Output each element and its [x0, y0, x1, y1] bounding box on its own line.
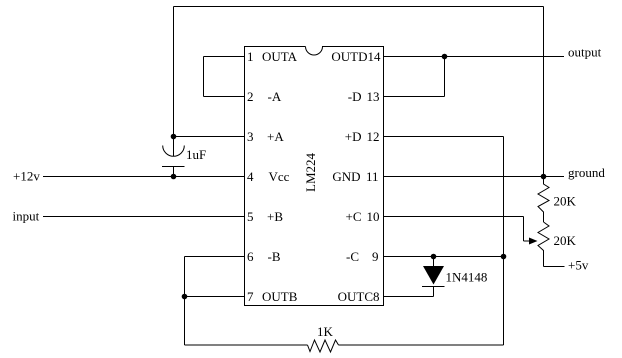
pin 8 name and number OUTC8 — [338, 289, 380, 304]
svg-text:+D: +D — [345, 129, 362, 144]
svg-text:3: 3 — [247, 129, 254, 144]
svg-text:+5v: +5v — [568, 257, 589, 272]
svg-text:GND: GND — [332, 169, 360, 184]
pin 1 name OUTA — [262, 49, 298, 64]
svg-text:2: 2 — [247, 89, 254, 104]
wire: pin 10 +C to wiper — [384, 216, 524, 218]
wire: pin 2 -A to feedback loop — [204, 96, 245, 98]
op-amp U1 LM224 body outline with notch — [245, 47, 384, 306]
pin 6 name -B — [268, 249, 281, 264]
pin 3 number — [247, 129, 254, 144]
pin 5 name +B — [267, 209, 283, 224]
node: junction pin7 / feedback vertical — [182, 294, 188, 300]
svg-text:20K: 20K — [554, 194, 577, 209]
label: 1N4148 value — [446, 269, 488, 284]
svg-text:OUTB: OUTB — [262, 289, 298, 304]
capacitor C1 bottom lead — [173, 167, 175, 177]
pin 9 number — [372, 249, 379, 264]
label: +12v — [13, 169, 40, 184]
potentiometer wiper arrowhead — [529, 238, 538, 245]
label: 20K upper value — [554, 194, 577, 209]
node: junction ground / right vertical / divider — [541, 174, 547, 180]
svg-text:5: 5 — [247, 209, 254, 224]
wire: wiper vertical — [523, 217, 525, 242]
diode D1 anode lead — [433, 257, 435, 267]
pin 9 name -C — [346, 249, 359, 264]
wire: pin 9 -C — [384, 256, 504, 258]
pin 12 number — [367, 129, 380, 144]
wire: pin 12 +D — [384, 136, 504, 138]
pin 11 name GND — [332, 169, 360, 184]
svg-text:ground: ground — [568, 165, 605, 180]
svg-text:-C: -C — [346, 249, 359, 264]
svg-text:7: 7 — [247, 289, 254, 304]
svg-text:12: 12 — [367, 129, 380, 144]
wire: wiper horizontal — [524, 240, 530, 242]
resistor R1 20K upper — [538, 177, 549, 223]
svg-text:1: 1 — [247, 49, 254, 64]
svg-text:1N4148: 1N4148 — [446, 269, 488, 284]
svg-text:input: input — [13, 209, 40, 224]
pin 10 number — [367, 209, 380, 224]
wire: pin 3 +A — [174, 136, 245, 138]
wire: right mid vertical pin12 to bottom rail — [503, 137, 505, 346]
pin 1 number — [247, 49, 254, 64]
node: junction pin9 / diode anode — [431, 254, 437, 260]
svg-text:+B: +B — [267, 209, 283, 224]
svg-text:-D: -D — [348, 89, 362, 104]
svg-text:1uF: 1uF — [186, 147, 206, 162]
wire: left vertical from top rail down to pin 3 — [173, 7, 175, 137]
pin 4 number — [247, 169, 254, 184]
svg-text:OUTC8: OUTC8 — [338, 289, 380, 304]
pin 7 name OUTB — [262, 289, 298, 304]
svg-text:6: 6 — [247, 249, 254, 264]
pin 5 number — [247, 209, 254, 224]
svg-text:13: 13 — [367, 89, 380, 104]
node: junction capacitor / +12v rail — [171, 174, 177, 180]
node: junction pin9 / right mid vertical — [501, 254, 507, 260]
svg-text:OUTD14: OUTD14 — [331, 49, 381, 64]
pin 2 name -A — [268, 89, 282, 104]
wire: +5v stub — [544, 266, 565, 268]
label: 1uF value — [186, 147, 206, 162]
wire: pin 8 OUTC to diode — [384, 296, 434, 298]
pin 7 number — [247, 289, 254, 304]
svg-text:LM224: LM224 — [303, 153, 318, 193]
wire: pin 6 -B — [185, 256, 245, 258]
wire: pin 13 -D — [384, 96, 445, 98]
wire: input to pin 5 +B — [43, 216, 245, 218]
svg-text:4: 4 — [247, 169, 254, 184]
svg-text:Vcc: Vcc — [269, 169, 290, 184]
svg-text:11: 11 — [366, 169, 379, 184]
svg-text:1K: 1K — [317, 324, 334, 339]
wire: left feedback vertical pin6 to bottom rail — [184, 257, 186, 346]
svg-text:OUTA: OUTA — [262, 49, 298, 64]
pin 12 name +D — [345, 129, 362, 144]
label: input — [13, 209, 40, 224]
svg-text:10: 10 — [367, 209, 380, 224]
resistor R2 20K lower — [538, 222, 549, 267]
pin 11 number — [366, 169, 379, 184]
svg-text:9: 9 — [372, 249, 379, 264]
pin 4 name Vcc — [269, 169, 290, 184]
svg-text:20K: 20K — [554, 233, 577, 248]
pin 2 number — [247, 89, 254, 104]
svg-text:+A: +A — [267, 129, 284, 144]
diode D1 cathode bar — [422, 286, 445, 288]
node: junction pin14 / pin13 feedback — [442, 54, 448, 60]
capacitor C1 flat plate — [162, 166, 185, 168]
wire: +12v rail to pin 4 Vcc — [43, 176, 245, 178]
label: +5v — [568, 257, 589, 272]
pin 14 name and number OUTD14 — [331, 49, 381, 64]
wire: top rail (node +A bypass to divider top) — [174, 6, 544, 8]
label: ground — [568, 165, 605, 180]
wire: pin 11 GND to ground label — [384, 176, 565, 178]
pin 6 number — [247, 249, 254, 264]
wire: pin 7 OUTB — [185, 296, 245, 298]
pin 10 name +C — [345, 209, 361, 224]
pin 3 name +A — [267, 129, 284, 144]
wire: pin 14 OUTD to output — [384, 56, 565, 58]
label: 20K lower value — [554, 233, 577, 248]
capacitor C1 top lead — [173, 137, 175, 157]
pin 13 number — [367, 89, 380, 104]
wire: right vertical from top rail down to ground node — [543, 7, 545, 177]
wire: pin 1 OUTA to feedback loop — [204, 56, 245, 58]
diode D1 cathode lead — [433, 287, 435, 297]
svg-text:output: output — [568, 44, 602, 59]
label: output — [568, 44, 602, 59]
label: 1K value — [317, 324, 334, 339]
diode D1 triangle — [423, 266, 444, 285]
wire: feedback vertical pin14-pin13 — [444, 57, 446, 97]
label: LM224 part number — [303, 153, 318, 193]
capacitor C1 curved plate — [163, 146, 185, 157]
svg-text:-A: -A — [268, 89, 282, 104]
svg-text:-B: -B — [268, 249, 281, 264]
resistor R3 1K zigzag — [308, 340, 339, 352]
wire: bottom rail left segment — [185, 344, 308, 346]
node: junction pin3 / top rail / capacitor — [171, 134, 177, 140]
svg-text:+12v: +12v — [13, 169, 40, 184]
wire: bottom rail right segment — [339, 344, 504, 346]
pin 13 name -D — [348, 89, 362, 104]
svg-text:+C: +C — [345, 209, 361, 224]
wire: feedback vertical pin1-pin2 — [203, 57, 205, 97]
